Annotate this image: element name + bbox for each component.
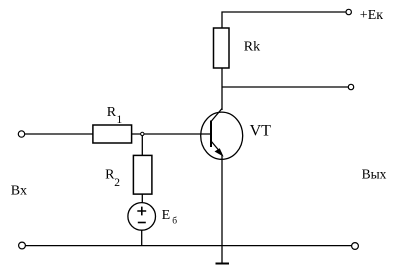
- svg-text:Rk: Rk: [244, 40, 260, 55]
- svg-text:Вых: Вых: [362, 167, 387, 182]
- svg-text:1: 1: [117, 114, 123, 126]
- svg-text:VT: VT: [250, 122, 272, 139]
- svg-text:Е: Е: [162, 208, 171, 223]
- svg-text:R: R: [107, 105, 117, 120]
- svg-text:Вх: Вх: [11, 183, 27, 198]
- svg-text:2: 2: [114, 177, 120, 189]
- svg-text:+Ек: +Ек: [360, 8, 383, 23]
- svg-text:б: б: [172, 216, 177, 227]
